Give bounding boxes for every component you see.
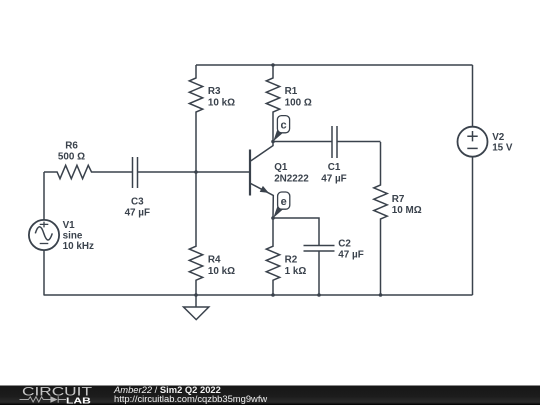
wire V2 bottom stem bbox=[472, 157, 474, 296]
node ground junction bbox=[194, 293, 198, 297]
wire collector to C1 bbox=[273, 141, 332, 143]
capacitor C1 bbox=[321, 126, 346, 184]
svg-text:15 V: 15 V bbox=[492, 143, 513, 154]
svg-text:10 kHz: 10 kHz bbox=[63, 241, 94, 252]
svg-text:e: e bbox=[281, 196, 287, 208]
pin label e bbox=[273, 192, 290, 218]
svg-text:C1: C1 bbox=[328, 162, 341, 173]
svg-text:R2: R2 bbox=[285, 255, 298, 266]
resistor R2 bbox=[266, 218, 306, 295]
transistor Q1 bbox=[250, 142, 309, 219]
svg-text:100 Ω: 100 Ω bbox=[285, 98, 312, 109]
wire V1 bottom stem bbox=[43, 250, 45, 295]
node emitter bbox=[271, 216, 275, 220]
svg-text:http://circuitlab.com/cqzbb35m: http://circuitlab.com/cqzbb35mg9wfw bbox=[114, 393, 267, 404]
wire C1 to R7 bbox=[337, 141, 381, 143]
capacitor C2 bbox=[304, 239, 364, 261]
svg-text:sine: sine bbox=[63, 231, 83, 242]
wire emitter to C2 bbox=[273, 218, 319, 246]
wire C2 to bottom rail bbox=[318, 251, 320, 295]
svg-text:R3: R3 bbox=[208, 86, 221, 97]
svg-text:1 kΩ: 1 kΩ bbox=[285, 266, 307, 277]
svg-text:LAB: LAB bbox=[66, 396, 91, 405]
wire input left bbox=[44, 171, 57, 173]
resistor R6 bbox=[57, 140, 94, 178]
node top rail / R1 bbox=[271, 63, 275, 67]
svg-text:2N2222: 2N2222 bbox=[274, 173, 309, 184]
wire bottom rail bbox=[44, 294, 473, 296]
node R2 bottom bbox=[271, 293, 275, 297]
wire R6 to C3 bbox=[94, 171, 133, 173]
resistor R4 bbox=[189, 172, 235, 295]
node base junction bbox=[194, 170, 198, 174]
node collector bbox=[271, 140, 275, 144]
wire V1 top stem bbox=[43, 172, 45, 220]
wire top rail bbox=[196, 64, 473, 66]
logo CIRCUIT LAB bbox=[20, 385, 93, 405]
resistor R7 bbox=[374, 142, 422, 295]
svg-text:R1: R1 bbox=[285, 86, 298, 97]
svg-text:c: c bbox=[280, 119, 286, 131]
svg-text:10 kΩ: 10 kΩ bbox=[208, 98, 235, 109]
resistor R1 bbox=[266, 65, 312, 142]
svg-text:10 MΩ: 10 MΩ bbox=[392, 205, 422, 216]
resistor R3 bbox=[189, 65, 235, 172]
pin label c bbox=[273, 116, 289, 142]
voltage source V1 bbox=[29, 220, 94, 252]
svg-text:C3: C3 bbox=[131, 196, 144, 207]
svg-text:47 µF: 47 µF bbox=[125, 208, 150, 219]
svg-text:R6: R6 bbox=[65, 140, 78, 151]
svg-text:47 µF: 47 µF bbox=[338, 250, 363, 261]
svg-text:10 kΩ: 10 kΩ bbox=[208, 266, 235, 277]
footer title text bbox=[113, 384, 267, 404]
ground bbox=[184, 295, 209, 320]
svg-text:R4: R4 bbox=[208, 255, 221, 266]
svg-text:47 µF: 47 µF bbox=[321, 173, 346, 184]
wire V2 top stem bbox=[472, 65, 474, 127]
svg-text:Q1: Q1 bbox=[274, 162, 288, 173]
svg-text:C2: C2 bbox=[338, 239, 351, 250]
svg-text:V2: V2 bbox=[492, 132, 505, 143]
svg-text:R7: R7 bbox=[392, 194, 405, 205]
capacitor C3 bbox=[125, 157, 150, 219]
wire C3 to base junction bbox=[138, 171, 250, 173]
svg-text:V1: V1 bbox=[63, 220, 76, 231]
svg-text:500 Ω: 500 Ω bbox=[58, 151, 85, 162]
voltage source V2 bbox=[458, 127, 513, 157]
node C2 bottom bbox=[317, 293, 321, 297]
node R7 bottom bbox=[379, 293, 383, 297]
